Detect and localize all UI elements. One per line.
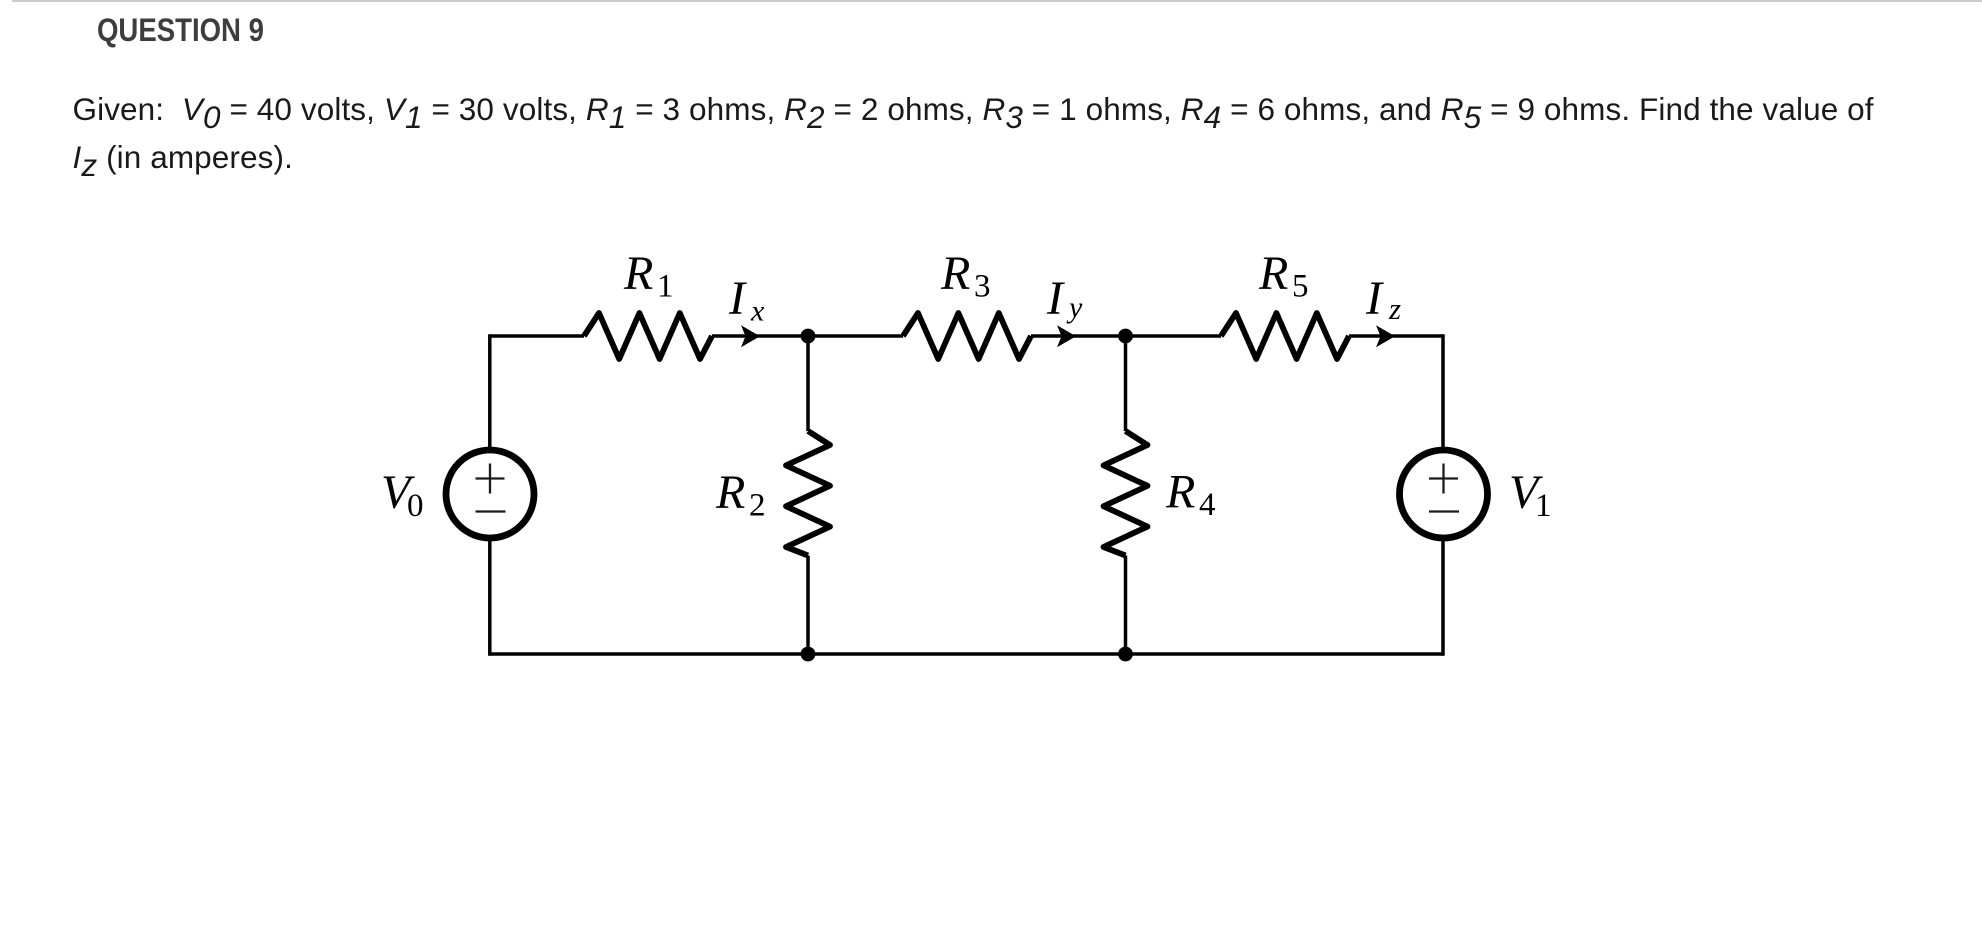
- svg-text:R: R: [940, 247, 970, 300]
- wire left rail upper: [488, 334, 492, 448]
- voltage source V1 circle: [1400, 450, 1488, 538]
- label V1: [1509, 466, 1552, 524]
- svg-text:R: R: [1258, 247, 1288, 300]
- svg-text:I: I: [728, 272, 747, 325]
- svg-text:4: 4: [1199, 487, 1216, 523]
- svg-text:I: I: [1046, 272, 1065, 325]
- wire bottom: [490, 652, 1443, 656]
- svg-text:R: R: [715, 466, 745, 519]
- svg-text:y: y: [1066, 291, 1083, 324]
- wire node B to R4: [1124, 336, 1128, 431]
- svg-text:1: 1: [657, 269, 674, 305]
- node B top junction dot: [1118, 329, 1133, 344]
- wire R2 to bottom node: [806, 556, 810, 655]
- resistor R3: [903, 313, 1031, 359]
- svg-text:z: z: [1388, 291, 1401, 326]
- resistor R1: [584, 313, 712, 359]
- label V0: [381, 466, 424, 524]
- wire between node A and R3: [808, 334, 903, 338]
- label Iy: [1046, 272, 1083, 325]
- wire right rail lower: [1441, 540, 1445, 656]
- svg-text:x: x: [750, 295, 765, 328]
- resistor R5: [1221, 313, 1349, 359]
- wire node A to R2: [806, 336, 810, 431]
- V1 minus sign: [1429, 510, 1459, 512]
- V1 plus sign: [1429, 464, 1458, 494]
- svg-text:R: R: [1165, 466, 1195, 519]
- label R4: [1165, 466, 1216, 524]
- resistor R4: [1104, 431, 1148, 556]
- V0 minus sign: [476, 510, 506, 512]
- wire top-left horizontal: [490, 334, 584, 338]
- svg-text:5: 5: [1292, 269, 1309, 305]
- wire left rail lower: [488, 540, 492, 656]
- wire right rail upper: [1441, 334, 1445, 448]
- wire R4 to bottom node: [1124, 556, 1128, 655]
- current arrow Ix: [741, 325, 760, 347]
- node A top junction dot: [801, 329, 816, 344]
- wire between R5 and right corner: [1349, 334, 1443, 338]
- svg-text:0: 0: [407, 488, 424, 524]
- current arrow Iy: [1057, 325, 1076, 347]
- label R2: [715, 466, 766, 524]
- svg-text:1: 1: [1535, 488, 1552, 524]
- label R5: [1258, 247, 1309, 305]
- wire between node B and R5: [1126, 334, 1222, 338]
- current arrow Iz: [1376, 325, 1395, 347]
- voltage source V0 circle: [446, 450, 534, 538]
- V0 plus sign: [476, 464, 505, 494]
- node A bottom junction dot: [801, 647, 816, 662]
- wire between R3 and node B: [1031, 334, 1126, 338]
- wire between R1 and node A: [712, 334, 808, 338]
- label R3: [940, 247, 991, 305]
- resistor R2: [786, 431, 830, 556]
- svg-text:2: 2: [749, 488, 766, 524]
- label Ix: [728, 272, 765, 328]
- svg-text:I: I: [1365, 272, 1384, 325]
- svg-text:R: R: [623, 247, 653, 300]
- label R1: [623, 247, 674, 305]
- svg-text:3: 3: [974, 269, 991, 305]
- label Iz: [1365, 272, 1401, 326]
- node B bottom junction dot: [1118, 647, 1133, 662]
